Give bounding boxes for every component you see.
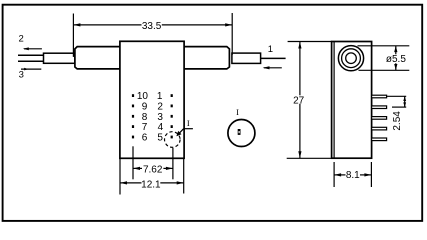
svg-text:8: 8: [142, 112, 148, 123]
side view inner edge line: [333, 42, 335, 159]
svg-text:I: I: [236, 107, 239, 117]
svg-text:6: 6: [142, 133, 148, 144]
svg-text:3: 3: [157, 112, 163, 123]
svg-text:12.1: 12.1: [141, 179, 161, 190]
svg-text:7: 7: [142, 122, 148, 133]
pin dots right column: [171, 94, 173, 138]
dimension 2.54 line and arrows: [403, 96, 406, 107]
left ferrule: [44, 53, 75, 63]
arrow port 1: [263, 66, 282, 69]
svg-text:4: 4: [158, 122, 164, 133]
dimension 7.62 extension lines: [132, 146, 134, 179]
leader to detail I: [176, 129, 193, 137]
svg-text:I: I: [187, 118, 190, 128]
svg-text:9: 9: [142, 101, 148, 112]
dimension 27 extension lines: [288, 41, 332, 43]
detail view circle I: [228, 120, 255, 147]
arrow port 3: [21, 68, 41, 71]
side view box: [332, 42, 372, 159]
collimator inner circle: [346, 53, 357, 64]
svg-text:1: 1: [157, 91, 163, 102]
svg-text:8.1: 8.1: [346, 170, 360, 181]
dimension 2.54 extension lines: [387, 95, 406, 97]
detail view pin cross-section: [238, 129, 241, 135]
pin numbers right column: [157, 91, 164, 143]
svg-text:3: 3: [19, 69, 24, 80]
package block: [120, 41, 184, 158]
dimension 12.1 line and arrows: [120, 181, 184, 184]
svg-text:2.54: 2.54: [392, 111, 403, 131]
dimension 7.62 line and arrows: [133, 167, 173, 170]
right fiber 1: [261, 57, 286, 59]
svg-text:7.62: 7.62: [143, 165, 163, 176]
arrow port 2: [23, 47, 42, 50]
svg-text:27: 27: [293, 95, 305, 106]
svg-text:2: 2: [157, 101, 163, 112]
svg-text:2: 2: [19, 33, 24, 44]
svg-text:ø5.5: ø5.5: [386, 54, 406, 65]
collimator middle circle: [342, 49, 361, 68]
left fiber 2: [18, 54, 44, 56]
dimension 8.1 extension lines: [333, 162, 335, 187]
dimension 12.1 extension lines: [119, 158, 121, 194]
svg-text:33.5: 33.5: [142, 21, 162, 32]
svg-text:10: 10: [137, 91, 149, 102]
dimension 33.5 line and arrows: [73, 23, 232, 26]
svg-text:1: 1: [268, 44, 273, 55]
dimension 8.1 line and arrows: [334, 173, 371, 176]
pins side view: [372, 95, 387, 140]
right ferrule: [232, 53, 261, 63]
cylinder body: [75, 47, 230, 69]
left fiber 3: [18, 60, 44, 62]
pin numbers left column: [137, 91, 149, 143]
svg-text:5: 5: [157, 133, 163, 144]
collimator outer circle: [338, 46, 363, 71]
dimension diameter 5.5 line and arrows: [394, 46, 397, 71]
dimension 33.5 extension lines: [72, 14, 74, 57]
detail circle I dashed: [165, 132, 181, 148]
dimension diameter 5.5 extension lines: [358, 45, 410, 47]
dimension 27 line and arrows: [298, 42, 301, 159]
pin dots left column: [132, 94, 134, 138]
